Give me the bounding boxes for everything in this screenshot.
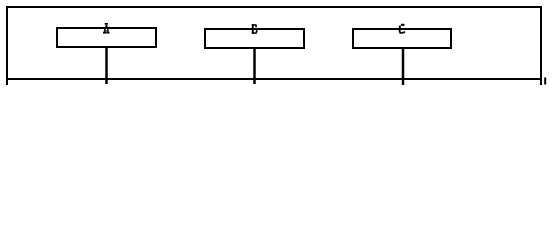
bus terminator tick: [544, 78, 546, 85]
wire drop C: [402, 49, 405, 85]
wire drop A: [105, 47, 108, 84]
wire drop B: [253, 48, 256, 84]
frame top wire: [6, 6, 542, 8]
label C: [399, 24, 405, 34]
frame left wire: [6, 6, 8, 85]
node A box: [57, 28, 156, 47]
bus wire: [6, 78, 542, 80]
frame right wire: [540, 6, 542, 85]
label A: [103, 23, 109, 34]
node C box: [353, 29, 451, 48]
node B box: [205, 29, 304, 48]
label B: [252, 24, 258, 34]
